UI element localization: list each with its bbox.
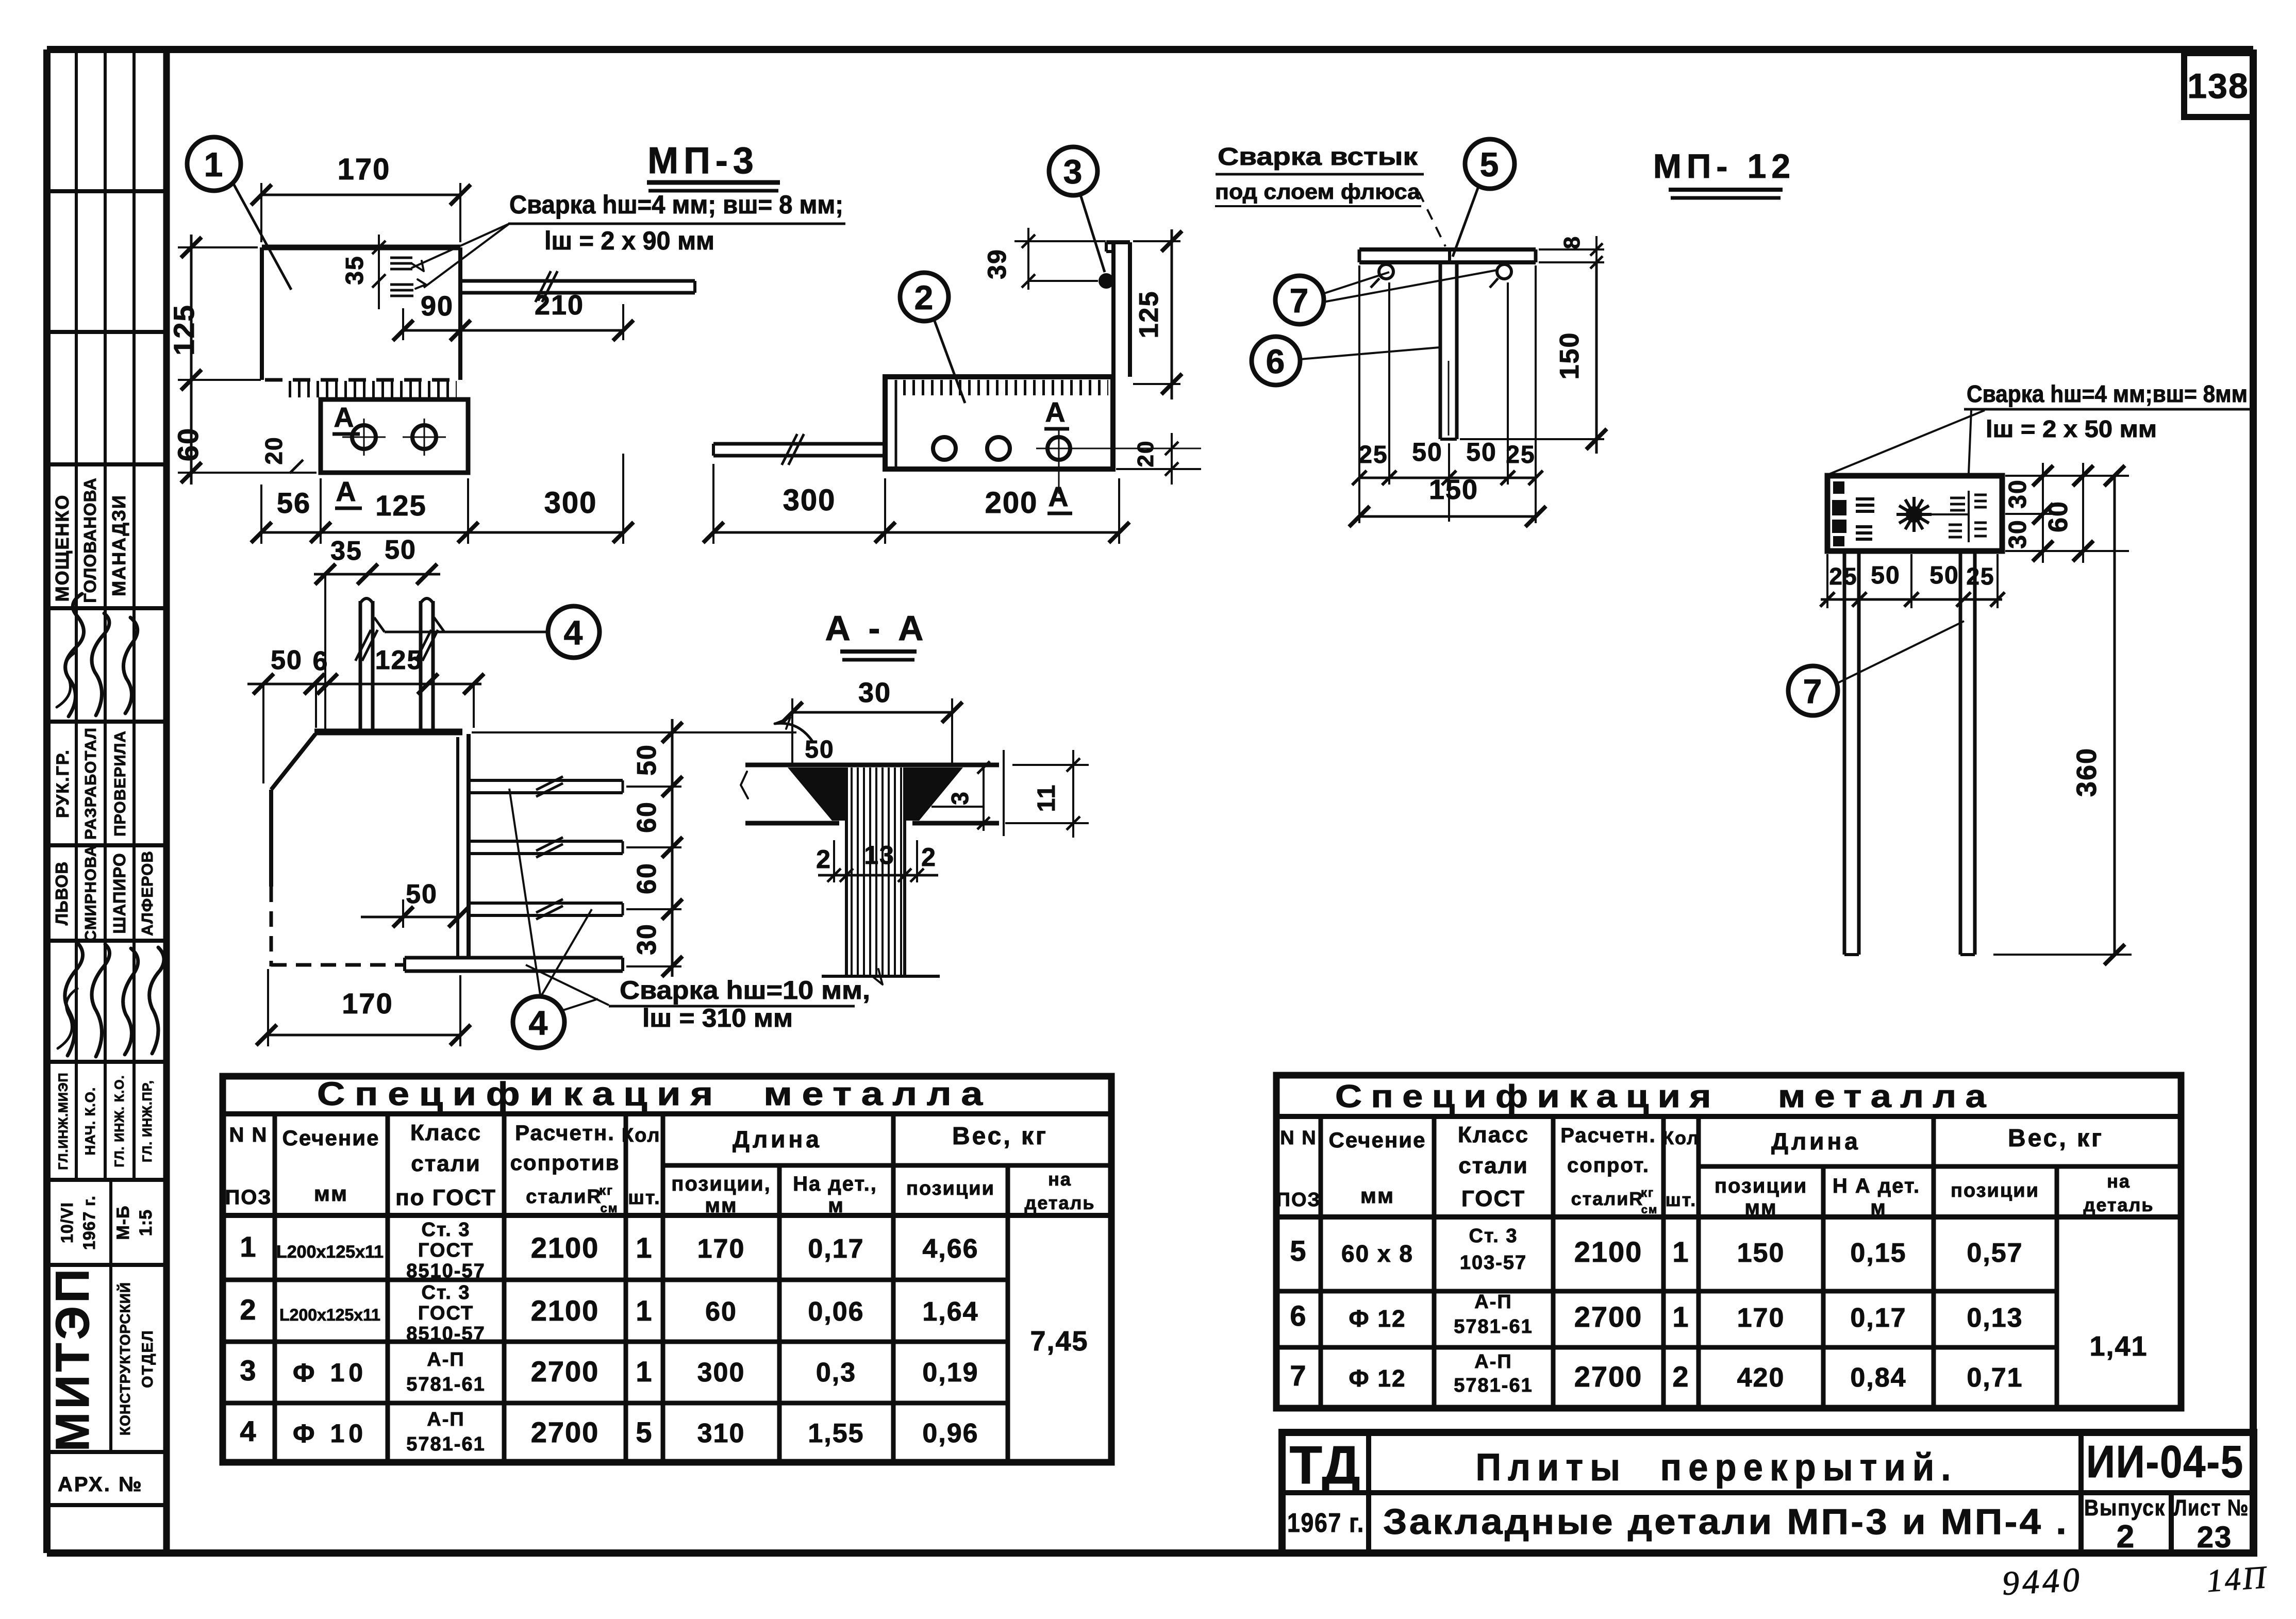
svg-text:L200х125х11: L200х125х11 <box>276 1242 384 1262</box>
weld fillets blacked in section <box>788 767 963 821</box>
svg-text:7,45: 7,45 <box>1030 1326 1088 1357</box>
rods pos.7 hanging down <box>1844 551 1975 955</box>
svg-text:деталь: деталь <box>2083 1194 2154 1215</box>
svg-text:ГОЛОВАНОВА: ГОЛОВАНОВА <box>80 477 99 603</box>
svg-text:7: 7 <box>1803 672 1823 710</box>
view label МП-3 <box>647 140 780 191</box>
svg-text:2700: 2700 <box>1574 1300 1643 1333</box>
svg-text:5781-61: 5781-61 <box>406 1433 485 1455</box>
section mark А-А on view 1 <box>332 402 362 508</box>
specification table left <box>223 1075 1111 1462</box>
svg-text:0,96: 0,96 <box>922 1418 978 1448</box>
svg-text:На дет.,: На дет., <box>793 1173 877 1195</box>
svg-text:1967 г.: 1967 г. <box>1287 1508 1365 1538</box>
svg-text:10/VI: 10/VI <box>58 1202 76 1243</box>
callout 1 <box>187 137 291 290</box>
svg-text:Сечение: Сечение <box>282 1126 380 1150</box>
svg-text:4,66: 4,66 <box>922 1234 978 1264</box>
signatures row 1 <box>57 594 138 716</box>
svg-text:ТД: ТД <box>1289 1436 1361 1495</box>
svg-text:125: 125 <box>375 645 423 675</box>
weld marks right side of plate <box>1949 491 1987 542</box>
rods pos.4 going up <box>356 598 438 731</box>
svg-text:см: см <box>1641 1203 1658 1216</box>
svg-text:СМИРНОВА: СМИРНОВА <box>81 845 99 942</box>
dimension 125 and 60 left <box>168 235 317 485</box>
svg-text:1: 1 <box>1672 1236 1689 1268</box>
svg-text:50: 50 <box>1929 562 1959 589</box>
svg-text:Класс: Класс <box>1458 1122 1529 1147</box>
svg-text:60: 60 <box>705 1297 737 1327</box>
svg-text:сопротив: сопротив <box>510 1150 620 1175</box>
svg-text:Ст. 3: Ст. 3 <box>422 1282 471 1304</box>
svg-text:Сечение: Сечение <box>1329 1128 1426 1152</box>
svg-text:25: 25 <box>1506 441 1535 469</box>
svg-text:м: м <box>1870 1196 1887 1219</box>
svg-text:0,17: 0,17 <box>1850 1303 1906 1333</box>
svg-text:8: 8 <box>1559 236 1585 249</box>
svg-text:35: 35 <box>341 255 369 285</box>
weld note Сварка hш=4мм вш=8мм lш=2х90мм <box>411 190 845 288</box>
svg-text:1967 г.: 1967 г. <box>80 1195 98 1250</box>
svg-text:lш = 310 мм: lш = 310 мм <box>642 1004 793 1032</box>
callout 4 bottom <box>513 996 564 1048</box>
svg-text:8510-57: 8510-57 <box>406 1260 485 1282</box>
dimension 11 plate thickness right <box>1004 750 1089 838</box>
anchor rods pos.4 going right <box>469 777 623 920</box>
svg-text:2: 2 <box>1672 1360 1689 1393</box>
callout 2 <box>900 273 965 403</box>
callout 4 top <box>374 606 600 658</box>
svg-text:2100: 2100 <box>531 1231 600 1264</box>
svg-text:Вес, кг: Вес, кг <box>2008 1125 2104 1152</box>
dimension 150 vertical <box>1460 262 1607 454</box>
dimension 170 top <box>251 153 471 242</box>
svg-text:0,17: 0,17 <box>808 1234 864 1264</box>
holes in side view <box>933 429 1201 494</box>
svg-text:300: 300 <box>544 486 597 520</box>
weld note сварка встык под слоем флюса <box>1215 143 1424 206</box>
svg-text:50: 50 <box>632 744 662 776</box>
dimension chain 56 125 300 bottom <box>251 454 634 544</box>
svg-text:14П: 14П <box>2205 1560 2269 1599</box>
svg-text:170: 170 <box>338 153 391 186</box>
svg-text:N N: N N <box>1280 1127 1317 1149</box>
svg-text:360: 360 <box>2071 747 2102 797</box>
svg-text:50: 50 <box>1466 438 1497 466</box>
svg-text:5: 5 <box>1290 1234 1307 1267</box>
svg-text:lш = 2 х 50 мм: lш = 2 х 50 мм <box>1986 415 2157 442</box>
svg-text:ГЛ. ИНЖ.ПР,: ГЛ. ИНЖ.ПР, <box>140 1080 155 1162</box>
svg-text:ПРОВЕРИЛА: ПРОВЕРИЛА <box>111 730 129 837</box>
weld note Сварка hш=10мм lш=310мм <box>526 965 870 1032</box>
svg-text:1: 1 <box>636 1355 653 1388</box>
svg-text:Кол.: Кол. <box>622 1125 667 1146</box>
svg-text:1: 1 <box>1672 1300 1689 1333</box>
svg-text:м: м <box>828 1194 844 1217</box>
svg-text:1: 1 <box>204 145 224 183</box>
svg-text:1: 1 <box>240 1230 257 1263</box>
svg-text:Сварка hш=10 мм,: Сварка hш=10 мм, <box>620 976 870 1005</box>
svg-text:деталь: деталь <box>1024 1192 1095 1213</box>
svg-text:50: 50 <box>271 645 303 675</box>
svg-text:ИИ-04-5: ИИ-04-5 <box>2086 1436 2244 1487</box>
svg-text:А: А <box>334 402 355 433</box>
svg-text:2: 2 <box>921 843 937 872</box>
svg-text:ПОЗ: ПОЗ <box>225 1186 272 1209</box>
svg-text:ГОСТ: ГОСТ <box>418 1303 474 1324</box>
positions row: гл.инж. нач. К.О. <box>56 1072 155 1170</box>
svg-text:Ф 12: Ф 12 <box>1349 1305 1406 1332</box>
svg-text:ГОСТ: ГОСТ <box>418 1240 474 1261</box>
svg-text:2100: 2100 <box>1574 1236 1643 1268</box>
svg-text:ОТДЕЛ: ОТДЕЛ <box>139 1329 156 1388</box>
svg-text:Закладные детали МП-3 и МП-4 .: Закладные детали МП-3 и МП-4 . <box>1383 1501 2069 1542</box>
svg-text:60: 60 <box>632 862 662 894</box>
svg-text:5781-61: 5781-61 <box>1454 1375 1533 1396</box>
svg-text:АЛФЕРОВ: АЛФЕРОВ <box>138 850 156 936</box>
svg-text:103-57: 103-57 <box>1460 1252 1527 1274</box>
svg-text:РУК.ГР.: РУК.ГР. <box>53 749 73 818</box>
svg-text:МОЩЕНКО: МОЩЕНКО <box>52 494 73 602</box>
svg-text:ПОЗ: ПОЗ <box>1276 1189 1321 1211</box>
svg-text:1:5: 1:5 <box>136 1209 156 1236</box>
svg-text:6: 6 <box>1290 1299 1307 1332</box>
svg-text:13: 13 <box>864 841 895 870</box>
dimension 30 30 60 right of plate <box>2004 463 2129 563</box>
svg-text:4: 4 <box>240 1415 257 1447</box>
left table data rows <box>240 1219 1088 1455</box>
svg-text:Ф 12: Ф 12 <box>1349 1365 1406 1392</box>
svg-text:125: 125 <box>1134 291 1164 339</box>
bottom plate pos.2 profile <box>405 958 623 971</box>
svg-text:кг: кг <box>1641 1186 1654 1200</box>
svg-text:А-П: А-П <box>1474 1351 1512 1373</box>
svg-text:Кол: Кол <box>1662 1127 1700 1148</box>
svg-text:4: 4 <box>529 1004 549 1042</box>
svg-text:0,57: 0,57 <box>1967 1238 2023 1268</box>
callout 7 bottom <box>1788 621 1964 715</box>
svg-text:мм: мм <box>1360 1183 1394 1208</box>
svg-text:Длина: Длина <box>733 1126 822 1153</box>
svg-text:2100: 2100 <box>531 1294 600 1327</box>
svg-text:А-П: А-П <box>427 1349 464 1371</box>
svg-text:Плиты перекрытий.: Плиты перекрытий. <box>1476 1446 1958 1489</box>
svg-text:2: 2 <box>2117 1519 2135 1555</box>
svg-text:Лист №: Лист № <box>2174 1495 2249 1521</box>
dimension 30 section top <box>782 677 962 763</box>
svg-text:L200х125х11: L200х125х11 <box>279 1306 380 1324</box>
svg-text:125: 125 <box>168 304 200 355</box>
svg-text:23: 23 <box>2197 1521 2233 1554</box>
svg-text:3: 3 <box>946 791 973 805</box>
callout 6 <box>1252 337 1439 385</box>
svg-text:позиции: позиции <box>1715 1175 1807 1197</box>
svg-text:2700: 2700 <box>1574 1360 1643 1393</box>
svg-text:0,06: 0,06 <box>808 1297 864 1327</box>
svg-text:30: 30 <box>632 923 662 955</box>
svg-text:150: 150 <box>1555 332 1585 380</box>
dimension 20 hole offset <box>260 436 303 473</box>
names row: Мощенко Голованова Манадзи <box>52 477 129 603</box>
svg-text:стали: стали <box>1458 1153 1528 1178</box>
plate pos.2 side view (200 wide) <box>885 377 1113 469</box>
svg-text:3: 3 <box>240 1354 257 1387</box>
upstanding leg pos.1 side <box>1106 242 1130 377</box>
dimension 39 <box>983 228 1106 290</box>
svg-text:6: 6 <box>1266 342 1286 380</box>
dimension chain 25 50 50 25 <box>1352 265 1543 523</box>
svg-text:210: 210 <box>535 290 584 321</box>
svg-text:А-П: А-П <box>427 1409 464 1430</box>
organization cell МИТЭП конструкторский отдел <box>46 1266 156 1452</box>
svg-text:25: 25 <box>1358 441 1388 469</box>
svg-text:ГЛ. ИНЖ. К.О.: ГЛ. ИНЖ. К.О. <box>112 1075 127 1167</box>
svg-text:НАЧ. К.О.: НАЧ. К.О. <box>82 1087 98 1155</box>
svg-text:150: 150 <box>1429 474 1478 505</box>
leader lines to callout 4 bottom <box>509 789 592 996</box>
svg-text:КОНСТРУКТОРСКИЙ: КОНСТРУКТОРСКИЙ <box>117 1282 133 1436</box>
arch number cell <box>58 1473 143 1496</box>
svg-text:МИТЭП: МИТЭП <box>46 1266 99 1452</box>
dimension 25 50 50 25 under plate <box>1820 554 2005 608</box>
svg-text:2: 2 <box>816 845 831 874</box>
plate pos.5 plan view <box>1827 476 2002 551</box>
svg-text:АРХ. №: АРХ. № <box>58 1473 143 1496</box>
svg-text:А: А <box>1045 397 1067 428</box>
dimension chain 50 60 60 30 right <box>472 719 796 977</box>
svg-text:N N: N N <box>229 1124 268 1146</box>
svg-text:мм: мм <box>1744 1196 1777 1219</box>
roles row: Рук.гр. Разработал Проверила <box>53 727 129 840</box>
svg-text:ГЛ.ИНЖ.МИЭП: ГЛ.ИНЖ.МИЭП <box>56 1072 71 1170</box>
svg-text:50: 50 <box>385 535 417 565</box>
svg-text:позиции: позиции <box>906 1178 995 1199</box>
svg-text:2700: 2700 <box>531 1355 600 1388</box>
dimension 2 13 2 under section <box>816 840 938 882</box>
top strap pos.5 (60x8 150 long) <box>1359 249 1536 262</box>
title block <box>1282 1432 2254 1555</box>
view label МП-12 <box>1653 147 1795 198</box>
holes in plate pos.2 <box>342 419 446 456</box>
svg-text:РАЗРАБОТАЛ: РАЗРАБОТАЛ <box>81 727 99 840</box>
dimension 360 long <box>1993 465 2132 965</box>
svg-text:4: 4 <box>564 613 584 652</box>
svg-text:ГОСТ: ГОСТ <box>1461 1186 1525 1211</box>
plate pos.1 front (170x125) <box>262 247 460 389</box>
svg-text:0,71: 0,71 <box>1967 1363 2023 1393</box>
dimension 3 weld reinforcement <box>931 761 990 831</box>
dimension 170 bottom of profile <box>256 969 471 1046</box>
names row 2: Львов Смирнова Шапиро Алферов <box>52 845 156 942</box>
svg-text:30: 30 <box>2004 479 2032 508</box>
svg-text:30: 30 <box>2004 519 2032 548</box>
svg-text:20: 20 <box>260 436 287 464</box>
svg-text:Класс: Класс <box>410 1120 481 1145</box>
svg-text:2: 2 <box>914 278 935 316</box>
plate pos.2 edge below (125x60) <box>321 399 468 473</box>
svg-text:8510-57: 8510-57 <box>406 1323 485 1345</box>
specification table right <box>1276 1075 2181 1408</box>
callout 5 <box>1419 139 1515 257</box>
svg-text:под слоем флюса: под слоем флюса <box>1215 179 1421 204</box>
svg-text:0,19: 0,19 <box>922 1358 978 1388</box>
svg-text:35: 35 <box>330 536 362 566</box>
svg-text:300: 300 <box>783 483 836 517</box>
svg-text:5781-61: 5781-61 <box>406 1374 485 1395</box>
rod pos.4 in section with hatching <box>822 767 940 984</box>
svg-text:мм: мм <box>705 1194 737 1217</box>
svg-text:А: А <box>1049 481 1070 512</box>
weld deposits inside plate <box>1832 481 1874 546</box>
svg-text:Н А дет.: Н А дет. <box>1833 1175 1920 1197</box>
callout 3 <box>1049 147 1105 272</box>
svg-text:200: 200 <box>985 486 1038 520</box>
svg-text:Ф 10: Ф 10 <box>293 1358 367 1387</box>
svg-text:по ГОСТ: по ГОСТ <box>395 1185 496 1210</box>
svg-text:Выпуск: Выпуск <box>2084 1495 2166 1521</box>
rod hooks pos.7 under strap <box>1371 264 1511 288</box>
weld angle 50deg label <box>775 717 835 763</box>
svg-text:позиции: позиции <box>1951 1180 2039 1201</box>
svg-text:7: 7 <box>1290 281 1310 320</box>
svg-text:МП-3: МП-3 <box>647 140 759 181</box>
svg-text:2: 2 <box>240 1293 257 1326</box>
stem rod pos.6 vertical <box>1440 262 1457 439</box>
svg-text:0,13: 0,13 <box>1967 1303 2023 1333</box>
svg-text:Спецификация металла: Спецификация металла <box>1335 1079 1995 1114</box>
svg-text:150: 150 <box>1737 1238 1785 1268</box>
svg-text:Вес, кг: Вес, кг <box>952 1123 1048 1150</box>
svg-text:25: 25 <box>1966 563 1994 590</box>
center plug weld starburst <box>1896 497 1969 532</box>
svg-text:на: на <box>1048 1169 1072 1190</box>
svg-text:420: 420 <box>1737 1363 1785 1393</box>
weld note Сварка hш=4мм вш=8мм lш=2х50мм right <box>1829 380 2250 474</box>
svg-text:мм: мм <box>314 1181 348 1206</box>
svg-text:3: 3 <box>1063 153 1084 191</box>
handwritten archive numbers <box>2001 1560 2269 1603</box>
svg-text:90: 90 <box>421 291 454 322</box>
svg-text:1,41: 1,41 <box>2089 1331 2148 1362</box>
right table data rows <box>1290 1225 2148 1396</box>
svg-text:310: 310 <box>697 1418 745 1448</box>
svg-text:ЛЬВОВ: ЛЬВОВ <box>52 861 71 925</box>
svg-text:0,84: 0,84 <box>1850 1363 1906 1393</box>
svg-text:138: 138 <box>2187 66 2249 106</box>
svg-text:50: 50 <box>1871 562 1900 589</box>
svg-text:11: 11 <box>1033 784 1060 812</box>
svg-text:А-П: А-П <box>1474 1291 1512 1313</box>
signatures row 2 <box>58 941 164 1057</box>
svg-text:Спецификация металла: Спецификация металла <box>317 1075 992 1112</box>
callout 7 left <box>1275 270 1497 324</box>
svg-text:5: 5 <box>1480 145 1500 183</box>
svg-text:шт.: шт. <box>1666 1189 1696 1210</box>
svg-text:2700: 2700 <box>531 1416 600 1448</box>
svg-text:ШАПИРО: ШАПИРО <box>110 853 129 933</box>
plate pos.2 in section <box>741 765 999 823</box>
svg-text:Сварка hш=4 мм; вш= 8 мм;: Сварка hш=4 мм; вш= 8 мм; <box>509 190 843 219</box>
left table headers <box>225 1120 1095 1217</box>
left title strip grid <box>49 49 163 1505</box>
svg-text:60: 60 <box>2043 500 2073 532</box>
svg-text:сопрот.: сопрот. <box>1567 1154 1650 1177</box>
svg-text:20: 20 <box>1133 440 1158 468</box>
svg-text:1: 1 <box>636 1231 653 1264</box>
dimension 35 50 above rods <box>314 535 440 731</box>
svg-text:МП- 12: МП- 12 <box>1653 147 1795 185</box>
body of МП-4 angle pos.1 profile <box>271 732 469 966</box>
svg-text:Длина: Длина <box>1771 1128 1861 1155</box>
svg-text:А: А <box>336 476 357 507</box>
svg-text:Сварка hш=4 мм;вш= 8мм: Сварка hш=4 мм;вш= 8мм <box>1967 380 2248 407</box>
svg-text:60 х 8: 60 х 8 <box>1341 1240 1413 1267</box>
svg-text:170: 170 <box>1737 1303 1785 1333</box>
svg-text:56: 56 <box>277 487 311 519</box>
svg-text:Расчетн.: Расчетн. <box>1560 1124 1656 1147</box>
dimension 90 and 210 <box>393 290 634 341</box>
svg-text:Ст. 3: Ст. 3 <box>1469 1225 1518 1247</box>
svg-text:125: 125 <box>375 489 426 522</box>
svg-text:сталиR: сталиR <box>526 1186 602 1208</box>
svg-text:5781-61: 5781-61 <box>1454 1316 1533 1338</box>
section mark А-А on view 2 <box>1044 397 1072 513</box>
svg-text:9440: 9440 <box>2001 1561 2084 1603</box>
svg-text:50: 50 <box>805 736 834 763</box>
svg-text:30: 30 <box>858 677 891 708</box>
svg-text:Ст. 3: Ст. 3 <box>422 1219 471 1241</box>
svg-text:Расчетн.: Расчетн. <box>515 1121 615 1145</box>
svg-text:см: см <box>600 1201 618 1215</box>
svg-text:7: 7 <box>1290 1359 1307 1392</box>
svg-text:50: 50 <box>1412 438 1443 466</box>
svg-text:300: 300 <box>697 1358 745 1388</box>
anchor rod pos.4 left <box>713 434 885 465</box>
svg-text:0,15: 0,15 <box>1850 1238 1906 1268</box>
weld dot pos.3 rod end <box>1100 274 1113 288</box>
dimension 35 rod offset <box>341 235 386 309</box>
dimension 50 6 125 upper chain <box>247 645 484 783</box>
anchor rod pos.3 upper <box>460 271 695 302</box>
date and scale cells: 10/VI 1967 г. М-Б 1:5 <box>58 1195 156 1250</box>
svg-text:на: на <box>2107 1171 2131 1192</box>
weld marks at rod root <box>390 258 426 296</box>
svg-text:1,55: 1,55 <box>808 1418 864 1448</box>
dimension 300 and 200 bottom of side view <box>703 464 1129 544</box>
dimension 50 weld length <box>361 879 469 928</box>
sheet page number box 138 <box>2184 53 2253 117</box>
dimension 125 right side <box>1133 229 1182 399</box>
svg-text:6: 6 <box>313 646 329 676</box>
dimension 8 strap thickness <box>1539 236 1604 276</box>
svg-text:стали: стали <box>411 1151 481 1176</box>
svg-text:МАНАДЗИ: МАНАДЗИ <box>108 494 129 596</box>
svg-text:М-Б: М-Б <box>113 1205 133 1240</box>
section label А-А <box>825 609 928 660</box>
svg-text:170: 170 <box>342 987 393 1020</box>
svg-text:позиции,: позиции, <box>671 1173 771 1195</box>
svg-text:60: 60 <box>172 427 204 461</box>
svg-text:170: 170 <box>697 1234 745 1264</box>
svg-text:Сварка встык: Сварка встык <box>1218 143 1418 171</box>
svg-text:сталиR: сталиR <box>1571 1188 1644 1209</box>
dimension 20 right side <box>1116 433 1201 485</box>
svg-text:lш = 2 х 90 мм: lш = 2 х 90 мм <box>544 226 714 255</box>
svg-text:60: 60 <box>632 801 662 833</box>
svg-text:А - А: А - А <box>825 609 928 648</box>
svg-text:5: 5 <box>636 1416 653 1448</box>
